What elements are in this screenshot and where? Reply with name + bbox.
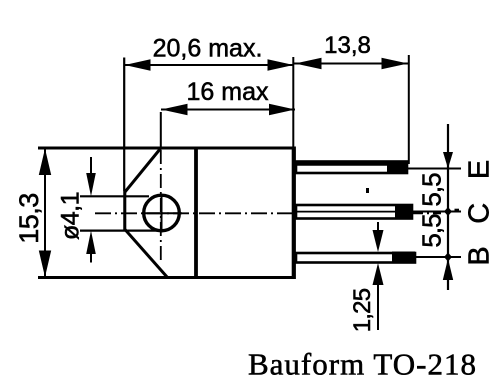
svg-text:13,8: 13,8 [324,32,371,59]
svg-text:C: C [464,203,496,224]
hole upper tangent extension line [80,195,149,197]
dimension line 1,25 upper [377,222,379,232]
lead C dark tip [395,205,412,220]
vertical centerline solid part (16 max extension) [160,112,162,148]
hole lower tangent extension line [80,230,157,232]
lead C extension line to dimension [412,211,461,213]
svg-text:1,25: 1,25 [349,288,376,332]
svg-text:Bauform TO-218: Bauform TO-218 [248,347,477,382]
chain diamond at B [444,253,452,262]
lead B dark tip [392,252,415,264]
chain diamond at C [444,207,452,216]
wire bottom edge of package (with 15,3 extension) [38,276,295,279]
svg-text:20,6 max.: 20,6 max. [153,35,263,63]
arrowhead 20,6 right [268,59,294,71]
svg-text:16 max: 16 max [187,78,269,106]
dimension line 16 max [161,109,295,111]
wire top edge of package (with 15,3 extension) [38,147,295,150]
arrowhead 16max right [269,104,295,116]
arrowhead chain bottom (points up at B) [443,259,453,281]
svg-text:15,3: 15,3 [14,193,44,244]
lead C outline [296,205,412,219]
arrowhead 13,8 right [382,58,409,70]
arrowhead 1,25 upper (points down) [373,230,384,252]
svg-text:5,5: 5,5 [417,173,447,207]
tab/body boundary line [194,148,198,278]
arrowhead ø4,1 upper (points down) [86,173,96,196]
dimension line 13,8 [294,63,409,65]
speck near lead C [366,188,369,193]
lead E thick top edge [295,162,407,166]
mounting hole circle [144,195,180,231]
lead B outline [296,253,415,263]
tab bottom chamfer [125,230,168,278]
svg-text:5,5: 5,5 [417,214,447,248]
chain dimension line right (5,5/5,5) [447,124,449,290]
lead B extension line to dimension [415,256,461,258]
lead E outline [296,162,407,174]
svg-text:E: E [464,160,496,179]
arrowhead chain top (points down at E) [443,152,453,169]
arrowhead 13,8 left [295,58,322,70]
extension line right of 13,8 (to lead tips) [408,55,410,164]
arrowhead ø4,1 lower (points up) [86,231,96,254]
arrowhead 15,3 top [39,149,51,176]
dimension line 15,3 [44,149,46,278]
hole cross horizontal [142,212,182,214]
vertical centerline dash-dot [160,150,162,261]
body right edge [292,147,296,280]
lead C centerline inside [296,211,412,213]
arrowhead 20,6 left [125,59,151,71]
tab left edge + 20,6 extension [123,58,126,232]
svg-text:ø4,1: ø4,1 [57,192,85,240]
lead E extension line to dimension [407,168,461,170]
arrowhead 16max left [161,104,187,116]
dimension line 1,25 lower [377,280,379,330]
arrowhead 1,25 lower (points up) [373,263,384,285]
arrowhead 15,3 bottom [39,251,51,278]
tick right of chain C junction [455,209,460,211]
extension line above body right edge (for 20,6 / 13,8) [292,57,294,147]
horizontal centerline dash-dot [95,212,441,214]
tab top chamfer [125,149,161,193]
hole cross vertical [161,194,163,233]
dimension line ø4,1 lower [90,253,92,263]
svg-text:B: B [464,246,496,265]
dimension line 20,6 max [124,64,294,66]
dimension line ø4,1 upper [90,157,92,174]
lead E dark tip [387,161,407,174]
